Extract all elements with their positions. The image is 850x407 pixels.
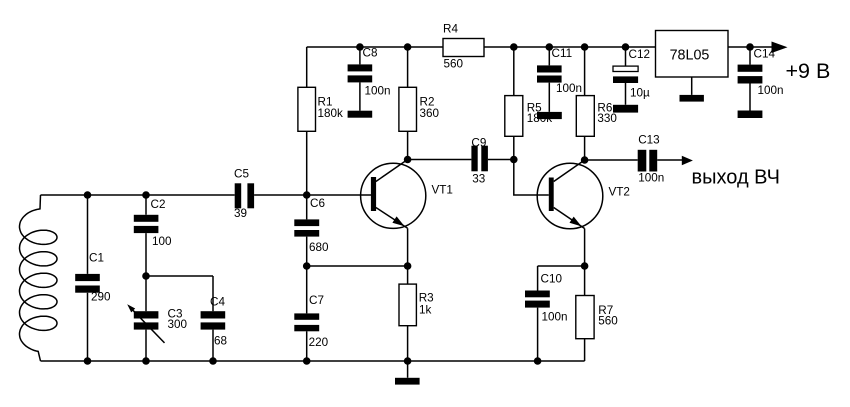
capacitor C7 220 <box>294 266 328 361</box>
node top rail C12 <box>622 43 630 51</box>
capacitor C9 33 <box>471 137 488 186</box>
svg-text:VT1: VT1 <box>432 183 453 196</box>
transistor VT2 <box>537 160 630 229</box>
capacitor C2 100 <box>134 195 172 276</box>
variable capacitor C3 300 <box>127 276 187 361</box>
capacitor C5 39 <box>234 168 254 221</box>
svg-text:68: 68 <box>214 335 227 348</box>
node top rail R2 <box>404 43 412 51</box>
ground under C8 <box>348 111 373 118</box>
wire VT1 collector row to C9 <box>408 159 514 161</box>
svg-text:C2: C2 <box>151 198 166 211</box>
wire VT2 collector row to C13 <box>585 159 683 161</box>
node top rail R6 <box>581 43 589 51</box>
wire VT2 emitter down <box>584 229 586 267</box>
svg-text:VT2: VT2 <box>609 186 630 199</box>
resistor R3 1k <box>399 266 434 378</box>
inductor L1 coil <box>20 195 58 361</box>
wire VT2 emitter node to C10 <box>538 265 585 267</box>
capacitor C11 100n <box>537 47 582 112</box>
node bottom rail C4 <box>209 357 217 365</box>
svg-text:1k: 1k <box>419 303 432 316</box>
svg-text:360: 360 <box>420 107 440 120</box>
node bottom rail C1 <box>84 357 92 365</box>
svg-text:180k: 180k <box>318 107 344 120</box>
svg-text:R4: R4 <box>443 23 458 36</box>
capacitor C4 68 <box>201 276 227 361</box>
svg-text:100n: 100n <box>638 172 664 185</box>
capacitor C14 100n <box>738 47 784 111</box>
arrow output ВЧ <box>682 156 693 166</box>
svg-text:100n: 100n <box>556 82 582 95</box>
ground main under R3 <box>395 378 420 385</box>
node bottom rail C10 <box>534 357 542 365</box>
node VT1 emitter <box>404 262 412 270</box>
node bottom rail C7 <box>303 357 311 365</box>
svg-text:10µ: 10µ <box>630 87 650 100</box>
capacitor C8 100n <box>348 47 391 111</box>
node bottom rail R3 <box>404 357 412 365</box>
svg-text:290: 290 <box>91 291 111 304</box>
capacitor C1 290 <box>75 195 111 361</box>
svg-text:C6: C6 <box>310 197 325 210</box>
wire 78L05 output to +9V arrow <box>728 46 774 48</box>
svg-text:C12: C12 <box>629 48 650 61</box>
resistor R6 330 <box>576 47 617 160</box>
node top rail C8 <box>356 43 364 51</box>
svg-text:100n: 100n <box>542 311 568 324</box>
node top rail C11 <box>546 43 554 51</box>
resistor R7 560 <box>576 266 619 361</box>
svg-text:выход ВЧ: выход ВЧ <box>692 166 780 188</box>
wire bottom rail y=361 <box>41 360 585 362</box>
svg-text:560: 560 <box>444 57 464 70</box>
svg-text:C7: C7 <box>309 294 324 307</box>
svg-text:C1: C1 <box>89 252 104 265</box>
svg-text:C8: C8 <box>363 47 378 60</box>
capacitor C10 100n <box>525 266 568 361</box>
node C9 R5 junction <box>510 156 518 164</box>
node C2/C3/C4 junction <box>142 272 150 280</box>
resistor R1 180k <box>298 47 343 195</box>
ground under C12 <box>613 105 638 113</box>
svg-text:33: 33 <box>472 173 485 186</box>
wire left rail (tank to VT1 base) y=195 <box>41 194 372 196</box>
capacitor C6 680 <box>294 195 329 266</box>
svg-text:100n: 100n <box>758 84 784 97</box>
wire top supply rail y=47 <box>307 46 656 48</box>
node left rail R1/C6 <box>303 191 311 199</box>
wire mid rail C6/C7 to VT1 emitter <box>307 265 408 267</box>
svg-text:C11: C11 <box>552 47 573 60</box>
svg-text:+9 В: +9 В <box>786 59 831 83</box>
resistor R4 560 <box>443 23 484 71</box>
svg-text:78L05: 78L05 <box>670 48 710 64</box>
ground under C14 <box>738 111 763 119</box>
node VT1 collector <box>404 156 412 164</box>
node C14 top <box>746 43 754 51</box>
node top rail R5 <box>510 43 518 51</box>
svg-text:300: 300 <box>168 318 188 331</box>
svg-text:C14: C14 <box>754 48 776 61</box>
ground under 78L05 <box>680 95 704 102</box>
svg-text:680: 680 <box>309 241 329 254</box>
svg-text:100: 100 <box>152 235 172 248</box>
svg-text:330: 330 <box>597 112 617 125</box>
svg-text:C5: C5 <box>234 168 249 181</box>
regulator U1 78L05 <box>656 31 729 95</box>
wire VT1 emitter down <box>407 228 409 266</box>
svg-text:C9: C9 <box>471 137 486 150</box>
node mid rail C6/C7 <box>303 262 311 270</box>
svg-text:100n: 100n <box>365 85 391 98</box>
svg-text:220: 220 <box>309 336 329 349</box>
svg-text:560: 560 <box>598 315 618 328</box>
wire C9 junction to VT2 base <box>514 160 549 196</box>
resistor R5 180k <box>505 47 552 160</box>
svg-text:C10: C10 <box>541 273 563 286</box>
svg-text:C13: C13 <box>638 134 659 147</box>
arrow +9V <box>772 42 788 54</box>
node VT2 collector <box>581 156 589 164</box>
wire C2 junction to C4 top <box>146 275 213 277</box>
node VT2 emitter <box>581 262 589 270</box>
ground under C11 <box>537 112 562 119</box>
node left rail C2 <box>142 191 150 199</box>
svg-text:39: 39 <box>234 207 247 220</box>
node left rail C1 <box>84 191 92 199</box>
capacitor C12 10u electrolytic <box>613 47 650 105</box>
capacitor C13 100n output <box>638 134 665 185</box>
transistor VT1 <box>361 160 453 229</box>
svg-text:C4: C4 <box>210 296 225 309</box>
resistor R2 360 <box>399 47 440 160</box>
node bottom rail C3 <box>142 357 150 365</box>
